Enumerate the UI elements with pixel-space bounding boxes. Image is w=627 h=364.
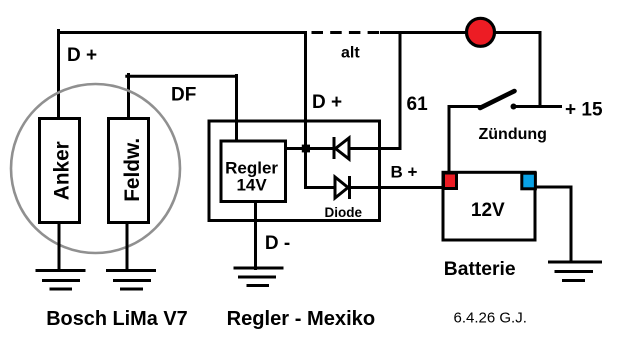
ground: battery — [548, 262, 602, 281]
svg-text:Diode: Diode — [325, 205, 363, 220]
node label DF — [171, 85, 196, 106]
svg-text:Regler: Regler — [225, 158, 278, 177]
label Zündung — [479, 126, 547, 143]
ignition switch S1 — [449, 91, 517, 110]
wire: junction down leg — [304, 149, 307, 190]
svg-text:Bosch LiMa V7: Bosch LiMa V7 — [46, 308, 187, 330]
diode D1 top (pointing left, cathode bar left) — [334, 137, 349, 159]
svg-text:Regler - Mexiko: Regler - Mexiko — [227, 308, 376, 330]
wire: lamp to right corner — [495, 31, 542, 34]
regulator inner box U1 — [221, 141, 286, 202]
field winding box "Feldw." — [109, 119, 149, 223]
wire: right vertical down to switch level — [539, 31, 542, 108]
battery box — [443, 172, 535, 240]
node label +15 — [565, 100, 603, 121]
indicator lamp (red) — [467, 18, 495, 46]
svg-text:D +: D + — [312, 92, 342, 113]
node label D+ (middle) — [312, 92, 342, 113]
node label 61 — [407, 94, 429, 115]
wire: regulator D- to ground — [254, 201, 257, 270]
wire: battery - to ground — [535, 186, 573, 264]
svg-text:61: 61 — [407, 94, 429, 115]
svg-text:Batterie: Batterie — [444, 259, 516, 280]
node: junction dot D+ — [302, 145, 310, 153]
svg-text:alt: alt — [341, 45, 360, 62]
label Diode — [325, 205, 363, 220]
wire: bottom diode to battery B+ — [349, 186, 444, 189]
wire: top bus dashed "alt" segment — [312, 31, 382, 34]
wire: field winding to ground — [126, 222, 129, 272]
wire: left D+ drop to armature (with end tick) — [57, 29, 60, 118]
wire: lower leg to bottom diode — [304, 186, 335, 189]
battery - terminal (blue) — [522, 173, 536, 189]
node label D- — [265, 233, 290, 254]
label Regler 14V — [225, 158, 278, 194]
node label B+ — [391, 163, 418, 182]
ground: armature — [36, 271, 86, 290]
battery + terminal (red) — [444, 173, 457, 189]
svg-text:14V: 14V — [236, 176, 267, 195]
svg-text:D -: D - — [265, 233, 290, 254]
node label D+ (top left) — [67, 45, 97, 66]
wire: junction to top diode anode — [306, 147, 335, 150]
svg-text:Zündung: Zündung — [479, 126, 547, 143]
ground: field winding — [106, 271, 156, 290]
svg-text:+ 15: + 15 — [565, 100, 603, 121]
label Feldw. (rotated) — [121, 138, 144, 202]
wire: regulator output to junction — [287, 147, 307, 150]
caption Regler - Mexiko — [227, 308, 376, 330]
wire: switch right contact to +15 stub — [516, 105, 562, 108]
svg-text:Feldw.: Feldw. — [121, 138, 144, 202]
label Anker (rotated) — [50, 141, 73, 200]
label Batterie — [444, 259, 516, 280]
caption Bosch LiMa V7 — [46, 308, 187, 330]
wire: DF vertical into regulator — [235, 74, 238, 141]
wire: top bus solid segment to lamp — [380, 31, 467, 34]
wire: 61 vertical from top bus to diode output — [399, 31, 402, 150]
wire: top D+ bus solid left segment — [57, 31, 307, 34]
svg-text:B +: B + — [391, 163, 418, 182]
ground: regulator D- — [234, 268, 284, 286]
svg-text:6.4.26 G.J.: 6.4.26 G.J. — [454, 310, 527, 327]
wire: DF horizontal run — [125, 75, 238, 78]
diode D2 bottom (pointing right, cathode bar right) — [335, 176, 350, 199]
svg-text:D +: D + — [67, 45, 97, 66]
caption date 6.4.26 G.J. — [454, 310, 527, 327]
wire: DF vertical drop to field winding (with end tick) — [127, 73, 130, 118]
alternator outline circle — [11, 84, 180, 253]
svg-text:DF: DF — [171, 85, 196, 106]
armature winding box "Anker" — [40, 119, 80, 223]
net label alt — [341, 45, 360, 62]
label 12V — [471, 200, 505, 221]
wire: D+ mid vertical from top bus to diode junction — [304, 31, 307, 150]
wire: switch to battery + — [448, 105, 451, 173]
svg-text:12V: 12V — [471, 200, 505, 221]
wire: top diode to 61 wire — [349, 147, 402, 150]
regulator outer box — [209, 121, 380, 221]
wire: armature to ground — [58, 222, 61, 272]
svg-text:Anker: Anker — [50, 141, 73, 200]
